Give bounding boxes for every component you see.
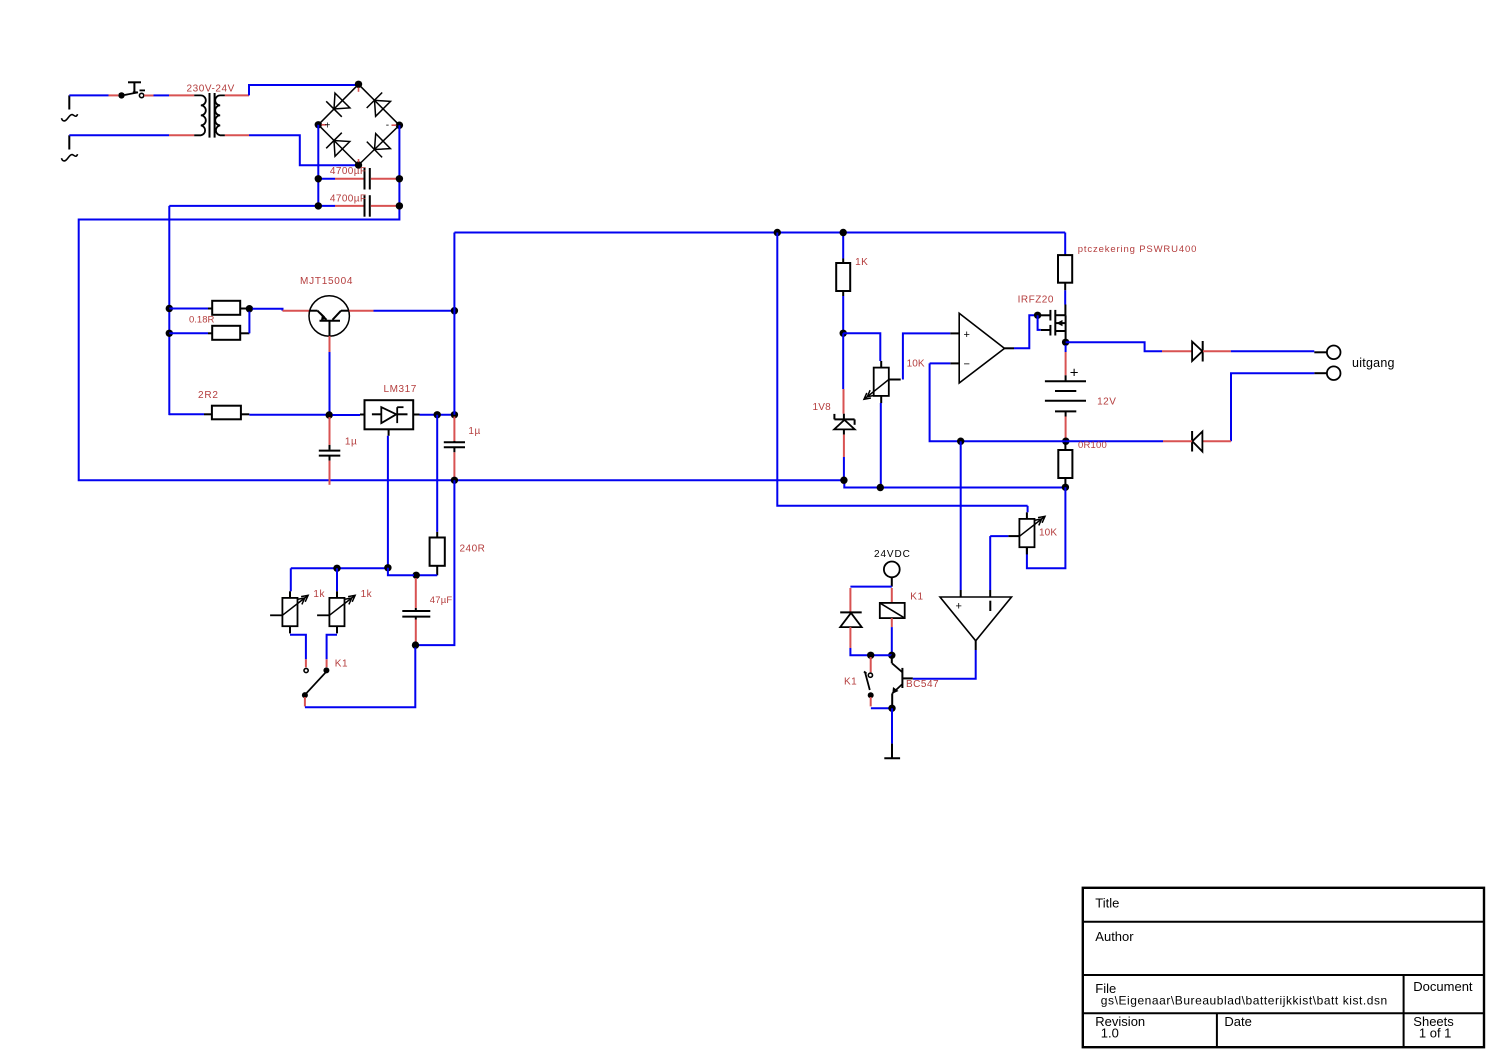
svg-text:10K: 10K <box>907 358 925 369</box>
svg-text:1k: 1k <box>361 589 373 600</box>
svg-text:uitgang: uitgang <box>1352 356 1395 370</box>
svg-text:47µF: 47µF <box>430 595 453 606</box>
svg-text:+: + <box>956 601 962 613</box>
svg-text:1µ: 1µ <box>468 426 480 437</box>
svg-text:Document: Document <box>1413 979 1473 994</box>
svg-text:1 of 1: 1 of 1 <box>1419 1026 1452 1041</box>
svg-text:LM317: LM317 <box>384 384 417 395</box>
svg-text:+: + <box>964 329 970 341</box>
svg-text:K1: K1 <box>335 659 348 670</box>
svg-text:K1: K1 <box>844 676 857 687</box>
svg-text:BC547: BC547 <box>906 679 939 690</box>
svg-text:1.0: 1.0 <box>1101 1026 1119 1041</box>
svg-text:IRFZ20: IRFZ20 <box>1018 295 1054 306</box>
svg-text:10K: 10K <box>1039 527 1057 538</box>
svg-text:−: − <box>964 359 970 371</box>
svg-text:230V-24V: 230V-24V <box>187 84 235 95</box>
svg-text:1V8: 1V8 <box>813 402 832 413</box>
svg-text:0.18R: 0.18R <box>189 314 214 325</box>
svg-text:-: - <box>386 120 389 131</box>
svg-text:24VDC: 24VDC <box>874 549 911 560</box>
svg-text:4700µF: 4700µF <box>330 166 367 177</box>
svg-text:2R2: 2R2 <box>198 390 219 401</box>
svg-text:240R: 240R <box>460 544 486 555</box>
svg-text:1K: 1K <box>855 257 868 268</box>
svg-text:4700µF: 4700µF <box>330 193 367 204</box>
svg-text:12V: 12V <box>1097 396 1116 407</box>
svg-text:Title: Title <box>1095 896 1119 911</box>
svg-text:1k: 1k <box>313 589 325 600</box>
svg-text:1µ: 1µ <box>345 437 357 448</box>
svg-text:gs\Eigenaar\Bureaublad\batteri: gs\Eigenaar\Bureaublad\batterijkkist\bat… <box>1101 994 1388 1008</box>
svg-text:K1: K1 <box>910 592 923 603</box>
svg-text:Author: Author <box>1095 929 1134 944</box>
svg-text:0R100: 0R100 <box>1078 440 1107 451</box>
svg-text:Date: Date <box>1224 1014 1251 1029</box>
svg-text:+: + <box>325 121 331 132</box>
svg-text:ptczekering PSWRU400: ptczekering PSWRU400 <box>1078 244 1197 255</box>
svg-text:MJT15004: MJT15004 <box>300 276 353 287</box>
svg-text:+: + <box>1070 365 1079 382</box>
